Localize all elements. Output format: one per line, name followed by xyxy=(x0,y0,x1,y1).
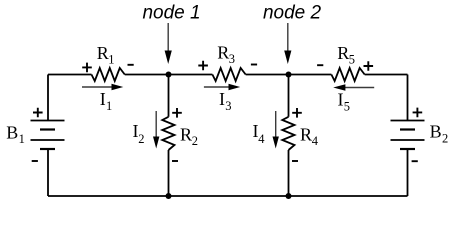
wire node2 to R4 top xyxy=(288,75,290,117)
svg-text:1: 1 xyxy=(108,53,114,67)
node 2 pointer arrow xyxy=(284,23,291,64)
resistor R3 zigzag xyxy=(212,68,245,81)
wire left vertical top (B1 positive lead) xyxy=(47,75,49,121)
polarity minus R1 right xyxy=(128,64,134,66)
svg-text:R: R xyxy=(180,125,192,145)
polarity plus B1 xyxy=(33,108,43,118)
battery B1 long plate top xyxy=(31,120,65,122)
resistor R4 label xyxy=(300,125,319,149)
polarity minus B2 xyxy=(412,160,418,162)
battery B2 short plate bottom xyxy=(400,148,415,150)
svg-text:2: 2 xyxy=(442,131,448,145)
polarity plus R2 top xyxy=(172,108,182,118)
polarity minus R4 bottom xyxy=(292,160,298,162)
svg-text:1: 1 xyxy=(19,132,25,146)
wire top right segment xyxy=(365,74,408,76)
svg-text:4: 4 xyxy=(258,132,265,146)
current I5 arrow (points left) xyxy=(333,84,374,90)
svg-text:3: 3 xyxy=(229,52,235,66)
resistor R1 label xyxy=(97,43,115,67)
current I2 arrow (points down) xyxy=(153,111,159,149)
wire bottom rail xyxy=(48,195,408,197)
battery B2 label xyxy=(430,122,449,146)
battery B2 short plate upper xyxy=(400,128,415,130)
resistor R4 zigzag xyxy=(282,117,294,150)
wire top between R1 and R3 xyxy=(125,74,213,76)
svg-text:5: 5 xyxy=(349,53,355,67)
svg-text:R: R xyxy=(300,125,312,145)
polarity plus R3 left xyxy=(198,61,208,71)
current I4 label xyxy=(253,121,266,146)
polarity minus B1 xyxy=(32,160,38,162)
battery B2 long plate top xyxy=(391,120,425,122)
svg-text:R: R xyxy=(337,43,349,63)
svg-text:I: I xyxy=(100,89,106,109)
battery B1 long plate lower xyxy=(31,139,65,141)
current I4 arrow (points down) xyxy=(273,111,279,149)
wire top left segment xyxy=(48,74,92,76)
wire node1 to R2 top xyxy=(168,75,170,117)
svg-text:I: I xyxy=(219,89,225,109)
resistor R2 label xyxy=(180,125,198,149)
battery B1 short plate upper xyxy=(40,128,55,130)
current I5 label xyxy=(338,90,350,114)
svg-text:B: B xyxy=(6,123,18,143)
polarity minus R2 bottom xyxy=(172,160,178,162)
current I2 label xyxy=(133,121,145,146)
svg-text:2: 2 xyxy=(192,134,198,148)
resistor R2 zigzag xyxy=(162,117,174,150)
svg-text:5: 5 xyxy=(344,100,350,114)
svg-text:I: I xyxy=(338,90,344,110)
resistor R5 zigzag xyxy=(331,68,364,81)
battery B2 long plate lower xyxy=(391,139,425,141)
polarity minus R5 left xyxy=(317,64,323,66)
svg-text:4: 4 xyxy=(312,134,319,148)
junction dot bottom left xyxy=(166,193,172,199)
svg-text:R: R xyxy=(97,43,109,63)
svg-text:node 2: node 2 xyxy=(263,3,322,24)
junction dot bottom right xyxy=(286,193,292,199)
svg-text:R: R xyxy=(217,43,229,63)
resistor R3 label xyxy=(217,43,235,67)
svg-text:3: 3 xyxy=(225,99,231,113)
wire top between R3 and R5 xyxy=(246,74,332,76)
polarity plus R4 top xyxy=(292,108,302,118)
current I3 arrow xyxy=(204,84,240,90)
current I1 label xyxy=(100,89,112,113)
wire left vertical bottom (B1 negative lead) xyxy=(47,149,49,196)
wire right vertical bottom (B2 negative lead) xyxy=(407,149,409,196)
svg-text:1: 1 xyxy=(106,99,112,113)
wire R4 bottom to bottom rail xyxy=(288,150,290,196)
svg-text:B: B xyxy=(430,122,442,142)
current I1 arrow xyxy=(82,84,123,90)
polarity minus R3 right xyxy=(251,64,257,66)
svg-text:2: 2 xyxy=(138,132,144,146)
wire R2 bottom to bottom rail xyxy=(168,150,170,196)
svg-text:node 1: node 1 xyxy=(142,3,200,24)
battery B1 short plate bottom xyxy=(40,148,55,150)
polarity plus R1 left xyxy=(82,63,92,73)
resistor R5 label xyxy=(337,43,355,67)
wire right vertical top (B2 positive lead) xyxy=(407,75,409,121)
current I3 label xyxy=(219,89,231,113)
node 2 junction dot top xyxy=(286,72,292,78)
polarity plus B2 xyxy=(413,108,423,118)
resistor R1 zigzag xyxy=(92,68,125,81)
polarity plus R5 right xyxy=(364,61,374,71)
node 1 pointer arrow xyxy=(165,23,172,64)
node 1 junction dot top xyxy=(166,72,172,78)
battery B1 label xyxy=(6,123,25,147)
